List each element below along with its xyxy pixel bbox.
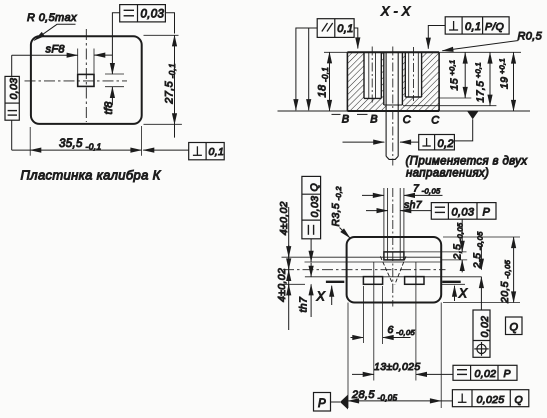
- datum box Q (right): [506, 317, 523, 335]
- svg-text:0,1: 0,1: [465, 21, 481, 33]
- hatch wall mid-C: [402, 52, 405, 111]
- 17,5+0,1 dimension: [403, 53, 496, 106]
- 20,5-0,05 dimension: [443, 237, 520, 303]
- face pair dash marks: [332, 113, 341, 115]
- svg-text:sh7: sh7: [404, 199, 423, 211]
- top edge: [347, 51, 439, 53]
- slot B: [364, 52, 381, 98]
- perpendicularity frame 0,1: [189, 143, 225, 160]
- svg-text:0,1: 0,1: [337, 23, 353, 35]
- left frame leaders: [11, 55, 13, 76]
- gauge pin through middle slot: [386, 52, 398, 159]
- slot bottom line segments: [283, 283, 305, 285]
- 2,5-0,05 dimension (second): [480, 242, 482, 310]
- position tolerance frame 0,02 (vertical): [473, 310, 490, 357]
- flatness frame 0,03 (top): [120, 5, 166, 22]
- slot: [78, 74, 94, 86]
- svg-text:0,03: 0,03: [141, 9, 165, 21]
- svg-text:4±0,02: 4±0,02: [278, 201, 290, 235]
- 2,5-0,05 dimension (first): [461, 219, 463, 272]
- sF8 dimension: [12, 49, 113, 74]
- 13±0,025 dimension: [352, 373, 453, 375]
- svg-text:13±0,025: 13±0,025: [374, 361, 421, 373]
- slot C: [405, 52, 421, 97]
- slot measuring-face extension lines: [374, 262, 416, 381]
- svg-text:P: P: [318, 398, 326, 410]
- flatness frame 0,03 (left, vertical): [5, 76, 19, 120]
- section plane X (right): [442, 281, 461, 283]
- P/Q frame leader: [428, 26, 445, 49]
- hatch under slot C: [405, 97, 421, 111]
- svg-text:направлениях): направлениях): [406, 168, 489, 180]
- svg-text:Q: Q: [515, 394, 524, 406]
- svg-text:Q: Q: [309, 183, 321, 192]
- svg-text:th7: th7: [298, 296, 310, 312]
- slot 1 (left): [363, 277, 382, 285]
- svg-text:C: C: [431, 114, 439, 126]
- svg-text:R 0,5max: R 0,5max: [27, 12, 77, 24]
- svg-text:R0,5: R0,5: [518, 31, 543, 43]
- pin leader arrows: [343, 141, 385, 143]
- svg-text:P: P: [483, 206, 491, 218]
- svg-text:X: X: [458, 287, 468, 301]
- horizontal centerline: [283, 269, 446, 271]
- svg-text:Q: Q: [510, 322, 519, 334]
- 15+0,1 dimension: [439, 53, 471, 99]
- svg-text:0,1: 0,1: [209, 146, 225, 158]
- hatch left block: [347, 52, 364, 111]
- svg-text:0,025: 0,025: [477, 394, 505, 406]
- hidden cone dashed lines: [380, 256, 393, 284]
- plate outline: [347, 237, 442, 303]
- datum triangle on bottom face: [467, 111, 478, 119]
- datum P triangle and box: [340, 395, 348, 410]
- flatness frame 0,03 P: [431, 203, 496, 220]
- 28,5-0,05 dimension: [348, 400, 452, 402]
- section plane X (left): [326, 281, 344, 283]
- middle slot: [384, 52, 403, 105]
- svg-text:0,02: 0,02: [475, 368, 497, 380]
- svg-text:P/Q: P/Q: [485, 21, 504, 33]
- sh7 slot box: [384, 252, 404, 260]
- top frame right leader: [165, 13, 174, 34]
- hatch wall B-mid: [381, 52, 384, 111]
- 35,5-0,1 dimension: [12, 126, 142, 156]
- svg-text:X: X: [316, 290, 326, 304]
- svg-text:(Применяется в двух: (Применяется в двух: [406, 156, 529, 168]
- // frame right leader: [354, 28, 358, 49]
- bottom edge: [347, 110, 439, 112]
- perpendicularity frame 0,025 Q: [452, 390, 528, 407]
- hatch under slot B: [364, 98, 381, 111]
- perpendicularity frame 0,1 P/Q: [445, 17, 509, 34]
- 19+0,1 dimension: [513, 53, 515, 112]
- side edges: [346, 52, 348, 111]
- perpendicularity frame 0,2: [419, 135, 455, 150]
- 6-0,05 dimension: [351, 337, 411, 339]
- // frame left leaders: [296, 28, 317, 110]
- svg-text:B: B: [370, 113, 378, 125]
- perpendicularity frame 0,1 leader: [143, 149, 189, 151]
- svg-text:Пластинка калибра К: Пластинка калибра К: [21, 168, 162, 183]
- extension lines below plate: [348, 286, 441, 408]
- 18-0,1 dimension: [329, 52, 331, 111]
- projection lines: [384, 188, 404, 260]
- svg-text:0,2: 0,2: [438, 138, 454, 150]
- svg-text:0,03: 0,03: [8, 78, 20, 100]
- vertical centerline: [85, 29, 87, 122]
- svg-text:4±0,02: 4±0,02: [276, 268, 288, 302]
- svg-text:P: P: [504, 368, 511, 380]
- hatch corners under mid slot: [384, 105, 386, 111]
- horizontal centerline: [25, 80, 128, 82]
- flatness frame 0,02 P: [453, 365, 517, 380]
- svg-text:X - X: X - X: [380, 5, 411, 19]
- svg-text:C: C: [403, 114, 411, 126]
- hatch right block: [422, 52, 440, 111]
- tf8 dimension: [105, 74, 124, 105]
- svg-text:tf8: tf8: [103, 101, 115, 115]
- plate outline: [31, 36, 142, 124]
- slot face line: [305, 276, 482, 278]
- R 0,5max label: [27, 12, 77, 40]
- svg-text:0,02: 0,02: [479, 316, 491, 338]
- top frame left leader / tf8 upper arrow: [112, 13, 119, 74]
- 4±0,02 dimensions (stacked): [288, 207, 290, 330]
- vertical centerline: [392, 188, 394, 307]
- parallelism frame // 0,1: [317, 19, 354, 38]
- svg-text:sF8: sF8: [46, 44, 66, 56]
- 27,5-0,1 dimension: [144, 35, 182, 137]
- svg-text:B: B: [342, 113, 350, 125]
- feature lines across plate: [282, 256, 442, 258]
- flatness frame 0,03 Q (left, vertical): [302, 176, 321, 238]
- slot 2 (right): [405, 277, 424, 285]
- svg-text:0,03: 0,03: [452, 206, 475, 218]
- svg-text:0,03: 0,03: [309, 196, 321, 218]
